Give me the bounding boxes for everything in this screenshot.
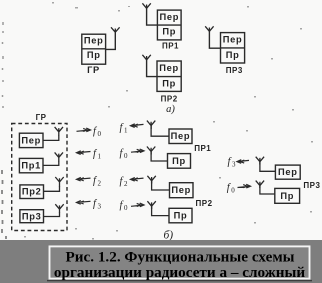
station PR3 (top): box bbox=[221, 33, 245, 63]
arrow f0 right (GR side) bbox=[77, 128, 91, 132]
svg-text:Пр: Пр bbox=[226, 50, 240, 60]
wire antenna to Пер (PR1) bbox=[151, 125, 169, 136]
svg-text:Пр: Пр bbox=[87, 50, 101, 60]
label f2 (GR side) bbox=[93, 175, 102, 187]
svg-text:Пер: Пер bbox=[159, 12, 179, 22]
svg-text:ГР: ГР bbox=[36, 113, 47, 122]
wire PR2 antenna to box bbox=[147, 60, 157, 77]
antenna PR1 (top) bbox=[142, 3, 150, 8]
antenna PR3-per (bottom) bbox=[256, 157, 264, 165]
antenna PR2-pr (bottom) bbox=[147, 201, 155, 209]
antenna GR bbox=[111, 27, 120, 32]
wire antenna to Пер (PR3) bbox=[260, 162, 276, 172]
svg-text:ПР1: ПР1 bbox=[162, 42, 179, 51]
svg-text:ПР2: ПР2 bbox=[196, 199, 213, 208]
svg-text:Пр: Пр bbox=[172, 156, 186, 166]
svg-text:1: 1 bbox=[98, 153, 102, 161]
svg-text:а): а) bbox=[166, 104, 175, 115]
antenna PR2 (top) bbox=[142, 55, 150, 60]
svg-text:2: 2 bbox=[98, 179, 102, 187]
antenna PR2-per (bottom) bbox=[147, 176, 155, 184]
svg-text:1: 1 bbox=[124, 127, 128, 135]
svg-text:Пер: Пер bbox=[223, 35, 243, 45]
wire Пр2 to antenna bbox=[44, 187, 60, 192]
svg-text:Пр: Пр bbox=[280, 191, 294, 201]
antenna A1 (GR) bbox=[55, 127, 63, 136]
svg-text:ПР3: ПР3 bbox=[303, 181, 320, 190]
svg-text:ПР3: ПР3 bbox=[226, 66, 243, 75]
box Пр3 (in GR) bbox=[20, 210, 44, 223]
svg-text:2: 2 bbox=[124, 180, 128, 188]
dashed box GR bbox=[12, 124, 67, 231]
box Пер (PR3 bottom) bbox=[275, 165, 300, 179]
arrow f0 right (PR2) bbox=[131, 203, 144, 207]
wire antenna to Пр (PR1) bbox=[151, 151, 167, 161]
arrow f1 left (PR1) bbox=[131, 124, 144, 128]
label f3 (GR side) bbox=[93, 198, 102, 210]
svg-text:Пр: Пр bbox=[162, 78, 176, 88]
svg-text:Пер: Пер bbox=[171, 185, 191, 195]
box Пр1 (in GR) bbox=[19, 158, 43, 172]
box Пер (in GR) bbox=[19, 133, 43, 147]
wire PR1 antenna to box bbox=[147, 8, 158, 25]
svg-text:3: 3 bbox=[232, 161, 236, 169]
caption band bbox=[0, 240, 322, 283]
wire antenna to Пр (PR3) bbox=[260, 185, 275, 194]
antenna PR1-per (bottom) bbox=[147, 121, 155, 129]
arrow f3 left (GR side) bbox=[77, 201, 91, 205]
label f0 (GR side) bbox=[93, 126, 102, 138]
antenna A4 (GR) bbox=[55, 204, 63, 212]
box Пер (PR2 bottom) bbox=[170, 183, 194, 198]
scan speckles bbox=[24, 2, 313, 240]
svg-text:Пр2: Пр2 bbox=[22, 187, 42, 197]
label f1 (PR1) bbox=[120, 123, 129, 135]
label f0 (PR2) bbox=[120, 200, 129, 212]
svg-text:б): б) bbox=[163, 229, 173, 241]
box Пер (PR1 bottom) bbox=[169, 129, 192, 144]
label f1 (GR side) bbox=[93, 149, 102, 161]
station PR1 (top): box bbox=[157, 10, 181, 40]
label f0 (PR1) bbox=[120, 148, 129, 160]
caption bottom black line bbox=[47, 280, 312, 281]
wire Пр1 to antenna bbox=[43, 161, 59, 165]
wire antenna to Пер (PR2) bbox=[152, 181, 170, 190]
antenna A2 (GR) bbox=[55, 152, 63, 161]
svg-text:0: 0 bbox=[124, 204, 128, 212]
box Пр2 (in GR) bbox=[20, 185, 44, 199]
antenna PR3-pr (bottom) bbox=[256, 181, 264, 188]
caption box bbox=[50, 246, 310, 278]
station PR2 (top): box bbox=[157, 61, 181, 91]
svg-text:Пр: Пр bbox=[174, 211, 188, 221]
svg-text:Пр: Пр bbox=[162, 27, 176, 37]
antenna A3 (GR) bbox=[55, 177, 63, 187]
arrow f0 right (PR1) bbox=[131, 149, 144, 153]
wire GR to antenna bbox=[106, 32, 116, 49]
box Пр (PR3 bottom) bbox=[275, 188, 300, 203]
scan noise left edge bbox=[2, 22, 5, 108]
svg-text:0: 0 bbox=[231, 187, 235, 195]
svg-text:Пер: Пер bbox=[171, 131, 191, 141]
arrow f0 right (PR3) bbox=[238, 184, 251, 188]
svg-text:Пр1: Пр1 bbox=[21, 161, 41, 171]
box Пр (PR1 bottom) bbox=[168, 154, 191, 169]
svg-text:Пер: Пер bbox=[278, 167, 298, 177]
arrow f1 left (GR side) bbox=[77, 151, 91, 155]
wire antenna to Пр (PR2) bbox=[152, 206, 169, 216]
label f2 (PR2) bbox=[120, 176, 129, 188]
svg-text:0: 0 bbox=[98, 130, 102, 138]
box Пр (PR2 bottom) bbox=[169, 208, 192, 223]
svg-text:Пр3: Пр3 bbox=[22, 211, 42, 221]
label f0 (PR3) bbox=[227, 183, 236, 195]
wire PR3 antenna to box bbox=[209, 31, 220, 48]
svg-text:ГР: ГР bbox=[87, 65, 100, 75]
station GR (top): box bbox=[82, 34, 106, 64]
arrow f3 left (PR3) bbox=[237, 160, 249, 164]
antenna PR3 (top) bbox=[205, 26, 213, 31]
svg-text:ПР2: ПР2 bbox=[161, 94, 178, 103]
svg-text:Пер: Пер bbox=[21, 135, 41, 145]
svg-text:Пер: Пер bbox=[84, 36, 104, 46]
arrow f2 left (GR side) bbox=[77, 177, 91, 181]
svg-text:0: 0 bbox=[124, 152, 128, 160]
arrow f2 left (PR2) bbox=[131, 178, 144, 182]
svg-text:3: 3 bbox=[98, 202, 102, 210]
antenna PR1-pr (bottom) bbox=[147, 147, 155, 155]
label f3 (PR3) bbox=[228, 157, 237, 169]
svg-text:Пер: Пер bbox=[159, 63, 179, 73]
wire Пр3 to antenna bbox=[44, 212, 60, 217]
svg-text:организации радиосети а – слож: организации радиосети а – сложный bbox=[54, 264, 305, 281]
svg-text:ПР1: ПР1 bbox=[194, 144, 211, 153]
wire Пер to antenna bbox=[43, 136, 59, 141]
